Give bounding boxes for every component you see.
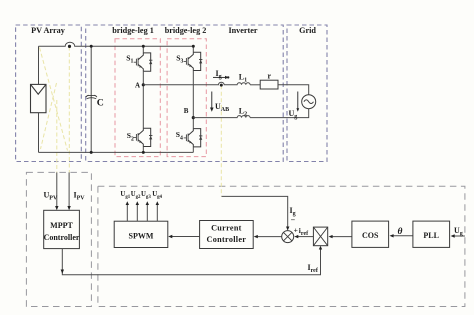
- wire PV bottom drop: [38, 113, 40, 153]
- AC source circle: [302, 95, 316, 109]
- Ig feedback wire: [222, 196, 288, 227]
- MPPT output wire: [62, 249, 320, 275]
- inductor L2: [237, 116, 250, 118]
- svg-text:−: −: [291, 215, 296, 224]
- wire PV top drop: [38, 46, 40, 84]
- PV Array section box: [16, 25, 82, 162]
- AC sine: [304, 100, 314, 104]
- leg2 wire middle: [192, 71, 194, 129]
- Ug annotation: [297, 92, 299, 110]
- arrow up into multiplier: [319, 246, 322, 250]
- svg-text:COS: COS: [362, 231, 379, 240]
- node dot C top: [90, 45, 93, 48]
- leg1 wire middle: [142, 71, 144, 128]
- Ig sensor dot: [220, 84, 223, 87]
- resistor r: [260, 80, 278, 89]
- leader line vertical to Upv: [56, 100, 58, 172]
- wire r to grid: [278, 85, 309, 95]
- svg-text:PV Array: PV Array: [31, 26, 66, 35]
- svg-text:MPPT: MPPT: [50, 221, 73, 230]
- PLL box: [413, 221, 450, 247]
- svg-text:SPWM: SPWM: [129, 232, 154, 241]
- leader line PV+ to Upv: [40, 48, 68, 151]
- arrow down at corner: [61, 270, 64, 274]
- output line B: [193, 117, 237, 119]
- MPPT Controller box: [44, 210, 80, 248]
- svg-text:A: A: [135, 81, 140, 89]
- top bus wire with hop: [39, 42, 194, 46]
- leg2 wire bottom: [192, 147, 194, 153]
- node dot leg2 top: [192, 45, 195, 48]
- svg-text:C: C: [97, 98, 104, 109]
- Ipv input line: [68, 172, 70, 207]
- tap dot on top bus: [68, 45, 71, 48]
- svg-text:Controller: Controller: [44, 233, 80, 242]
- multiplier box: [313, 227, 327, 246]
- svg-text:Grid: Grid: [299, 26, 316, 35]
- COS to multiplier wire: [332, 236, 352, 238]
- Upv input line: [56, 172, 58, 207]
- leader line diagonal: [41, 83, 57, 149]
- svg-text:r: r: [268, 72, 272, 81]
- svg-text:Inverter: Inverter: [228, 26, 257, 35]
- node A dot: [142, 83, 145, 86]
- Ug to PLL wire: [454, 235, 465, 237]
- bottom bus wire: [39, 151, 194, 153]
- leg1 wire top: [142, 46, 144, 53]
- svg-text:Controller: Controller: [207, 235, 247, 244]
- svg-text:PLL: PLL: [423, 231, 439, 240]
- svg-text:bridge-leg 2: bridge-leg 2: [165, 26, 207, 35]
- leader line Ig sensor: [220, 85, 222, 196]
- bridge-leg 2 box: [167, 39, 206, 157]
- PLL to COS wire: [393, 235, 413, 237]
- wire summer to CC: [257, 236, 282, 238]
- Current Controller box: [200, 221, 254, 249]
- svg-text:bridge-leg 1: bridge-leg 1: [112, 26, 154, 35]
- summing junction: [282, 231, 294, 243]
- svg-text:B: B: [184, 107, 189, 115]
- capacitor C wire: [90, 46, 92, 152]
- inductor L1: [237, 83, 250, 85]
- wire L1 to r: [250, 84, 260, 86]
- svg-text:+: +: [294, 225, 298, 234]
- converter section box: [86, 25, 284, 162]
- svg-text:Current: Current: [211, 224, 242, 233]
- transistor S4: [184, 129, 203, 147]
- bridge-leg 1 box: [115, 39, 160, 157]
- node dot leg1 bottom: [142, 151, 145, 154]
- leg1 wire bottom: [142, 147, 144, 153]
- leg2 wire top: [192, 46, 194, 52]
- SPWM box: [114, 221, 168, 247]
- multiplier to summer wire: [298, 236, 314, 238]
- transistor S2: [134, 128, 153, 146]
- transistor S3: [184, 52, 203, 70]
- PV panel: [31, 84, 47, 112]
- wire CC to SPWM: [172, 236, 200, 238]
- COS box: [352, 221, 389, 247]
- control section box: [98, 186, 465, 306]
- leader line Ipv: [68, 47, 70, 173]
- capacitor C plates: [86, 95, 97, 97]
- transistor S1: [134, 53, 153, 71]
- node dot leg1 top: [142, 45, 145, 48]
- output line A with hop: [143, 82, 237, 85]
- grid section box: [287, 25, 327, 162]
- node B dot: [192, 116, 195, 119]
- MPPT section box: [26, 172, 91, 306]
- U_AB arrow annotation: [211, 92, 213, 109]
- wire L2 to grid: [250, 109, 309, 118]
- node dot C bottom: [90, 151, 93, 154]
- svg-text:θ: θ: [398, 227, 403, 237]
- gate signal arrows: [127, 204, 157, 222]
